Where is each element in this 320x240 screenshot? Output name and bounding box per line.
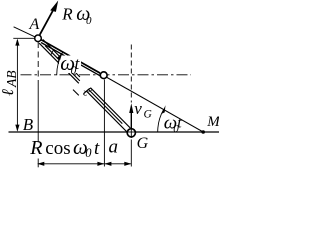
dimension a left arrowhead bbox=[104, 162, 111, 166]
svg-text:0: 0 bbox=[85, 146, 92, 160]
vertical dashed line through G above v_G arrow bbox=[130, 45, 132, 103]
arc angle w0t at right (center M r=45.5) bbox=[158, 110, 164, 132]
dimension l_AB vertical line bbox=[16, 40, 18, 131]
wire main thin line A-D-M bbox=[38, 38, 203, 132]
svg-text:a: a bbox=[109, 137, 119, 158]
dimension l_AB top arrowhead bbox=[15, 39, 19, 46]
arrowhead of R w0 bbox=[50, 1, 58, 12]
label l_AB rotated bbox=[0, 71, 19, 97]
hatch segment below l label bbox=[73, 90, 79, 96]
velocity arrow v_G at G bbox=[130, 108, 132, 129]
hinge circle G with crosshair bbox=[127, 129, 135, 137]
rod AD upper edge bbox=[39, 38, 101, 73]
svg-text:M: M bbox=[206, 114, 219, 130]
horizontal dash-dot centerline through D bbox=[21, 74, 192, 76]
rod AG upper edge bbox=[43, 40, 80, 78]
velocity arrow R w0 at A bbox=[40, 10, 54, 35]
svg-text:ℓ: ℓ bbox=[0, 89, 17, 96]
white break under left angle label bbox=[59, 56, 81, 74]
svg-text:cos: cos bbox=[45, 138, 70, 159]
rod AG: three parallel lines with gap for l label bbox=[39, 40, 130, 132]
extension line below D bbox=[103, 80, 105, 167]
svg-text:t: t bbox=[94, 138, 100, 159]
svg-text:R: R bbox=[61, 5, 73, 24]
svg-text:G: G bbox=[137, 135, 149, 152]
svg-text:t: t bbox=[177, 115, 182, 132]
rod AG middle hatch line bbox=[45, 46, 80, 81]
vertical dashed extension below B for R cos dimension bbox=[37, 159, 39, 168]
dimension l_AB bottom arrowhead bbox=[15, 125, 19, 132]
dimension R cos right arrowhead bbox=[97, 162, 104, 166]
vertical dashed line through A down to B bbox=[37, 42, 39, 86]
extension line below G bbox=[130, 140, 132, 167]
dimension a right arrowhead bbox=[124, 162, 131, 166]
arrowhead of v_G bbox=[129, 103, 133, 113]
hinge circle A bbox=[35, 35, 42, 42]
wire stub beyond A up-left bbox=[14, 27, 38, 39]
rod AG lower edge bbox=[39, 43, 79, 83]
dimension R cos left arrowhead bbox=[37, 162, 44, 166]
dimension a horizontal line bbox=[105, 163, 131, 165]
rod AG hatch ticks bbox=[51, 50, 54, 55]
arrowhead on left arc bbox=[57, 53, 62, 60]
svg-text:0: 0 bbox=[86, 15, 92, 27]
rod AD lower edge bbox=[41, 43, 103, 78]
dimension R cos w0t horizontal line bbox=[38, 163, 104, 165]
svg-text:R: R bbox=[29, 137, 42, 159]
baseline through B G M bbox=[9, 131, 220, 133]
svg-text:AB: AB bbox=[4, 71, 19, 89]
point M dot bbox=[201, 130, 205, 134]
svg-text:G: G bbox=[144, 108, 153, 120]
arrowhead on right arc bbox=[161, 105, 165, 114]
horizontal extension line through A bbox=[13, 37, 35, 39]
svg-text:A: A bbox=[29, 16, 40, 33]
svg-text:v: v bbox=[134, 99, 142, 118]
svg-text:B: B bbox=[23, 115, 34, 134]
arc angle w0t at left (center D r=47) bbox=[57, 52, 63, 75]
hinge circle D bbox=[100, 72, 107, 79]
crosshair of G bbox=[127, 131, 137, 133]
